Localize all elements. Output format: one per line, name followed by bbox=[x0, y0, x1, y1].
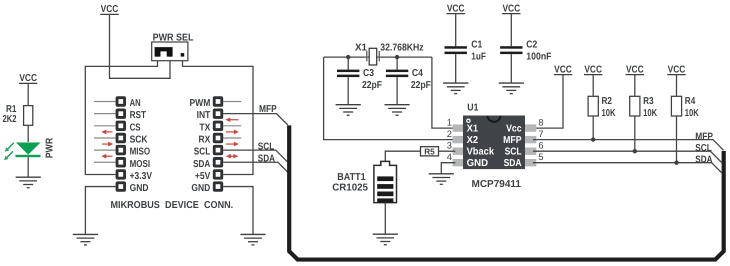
red direction arrows (left header) bbox=[101, 130, 113, 159]
svg-text:TX: TX bbox=[199, 122, 210, 133]
VCC (R4) bbox=[667, 64, 685, 75]
svg-text:SCL: SCL bbox=[194, 147, 211, 158]
svg-text:2: 2 bbox=[447, 129, 452, 139]
wire jumper pin1 to +3.3V rail bbox=[85, 61, 157, 175]
wire GND pin to ground (left) bbox=[85, 187, 115, 235]
svg-text:32.768KHz: 32.768KHz bbox=[380, 42, 423, 53]
svg-text:MIKROBUS DEVICE CONN.: MIKROBUS DEVICE CONN. bbox=[111, 200, 234, 211]
svg-text:GND: GND bbox=[467, 158, 489, 169]
right header labels bbox=[190, 98, 211, 194]
svg-text:VCC: VCC bbox=[502, 3, 520, 14]
svg-text:7: 7 bbox=[538, 129, 543, 139]
svg-text:CR1025: CR1025 bbox=[332, 182, 368, 193]
svg-text:VCC: VCC bbox=[668, 64, 686, 75]
wire pin3 Vback to R5 bbox=[439, 150, 456, 152]
svg-text:MCP79411: MCP79411 bbox=[472, 179, 522, 190]
svg-text:+5V: +5V bbox=[195, 171, 211, 182]
junction R2-MFP bbox=[591, 137, 595, 141]
node junction (crystal left) bbox=[346, 55, 350, 59]
left header labels bbox=[130, 98, 153, 194]
ground (C4) bbox=[385, 105, 410, 116]
wire SCL to bus bbox=[223, 150, 287, 162]
svg-text:RST: RST bbox=[130, 110, 147, 121]
svg-text:SDA: SDA bbox=[258, 154, 275, 165]
svg-text:X1: X1 bbox=[467, 123, 479, 134]
VCC (C2) bbox=[502, 3, 520, 14]
ground (LED) bbox=[16, 177, 41, 188]
wire R5 to battery bbox=[385, 151, 420, 161]
svg-text:MOSI: MOSI bbox=[130, 159, 151, 170]
resistor R5 bbox=[421, 146, 439, 156]
crystal X1 bbox=[355, 42, 424, 65]
thick bus wire bbox=[289, 125, 724, 259]
svg-text:X2: X2 bbox=[467, 135, 479, 146]
svg-text:VCC: VCC bbox=[554, 64, 572, 75]
wire INT to MFP node bbox=[223, 114, 288, 125]
wire VCC down to jumper middle pin bbox=[110, 14, 171, 78]
wire pin4 GND to ground bbox=[441, 163, 455, 174]
VCC (R2) bbox=[584, 64, 602, 75]
svg-text:10K: 10K bbox=[685, 108, 700, 119]
svg-text:RX: RX bbox=[199, 135, 211, 146]
svg-text:C2: C2 bbox=[526, 39, 537, 50]
svg-text:Vcc: Vcc bbox=[506, 123, 522, 134]
wire pin7 MFP to bus bbox=[533, 140, 724, 151]
VCC (top left, jumper supply) bbox=[100, 4, 118, 15]
resistor R2 bbox=[588, 75, 616, 140]
battery BATT1 bbox=[332, 161, 396, 202]
wire right rail to X1 (pin1) bbox=[432, 57, 455, 128]
svg-text:VCC: VCC bbox=[584, 64, 602, 75]
jumper PWR_SEL bbox=[152, 33, 194, 61]
svg-text:1: 1 bbox=[447, 118, 452, 128]
resistor R4 bbox=[671, 75, 699, 163]
svg-text:X1: X1 bbox=[355, 42, 367, 53]
capacitor C3 bbox=[337, 57, 382, 104]
ground (C2) bbox=[499, 83, 524, 94]
svg-text:MFP: MFP bbox=[259, 104, 277, 115]
ground (C1) bbox=[443, 83, 468, 94]
VCC (R3) bbox=[626, 64, 644, 75]
ground (right header) bbox=[240, 234, 265, 245]
svg-text:CS: CS bbox=[130, 122, 141, 133]
wire battery to ground bbox=[384, 203, 386, 234]
left header pins bbox=[116, 96, 126, 191]
svg-text:Vback: Vback bbox=[467, 146, 495, 157]
wire LED to ground bbox=[27, 157, 29, 177]
wire GND pin to ground (right) bbox=[223, 187, 253, 235]
resistor R1 bbox=[3, 104, 33, 126]
junction R4-SDA bbox=[674, 161, 678, 165]
svg-text:R2: R2 bbox=[602, 96, 613, 107]
svg-text:22pF: 22pF bbox=[411, 80, 431, 91]
svg-text:6: 6 bbox=[538, 141, 543, 151]
svg-text:PWR: PWR bbox=[44, 137, 55, 158]
junction R3-SCL bbox=[633, 149, 637, 153]
wire left rail to X2 (pin2) bbox=[324, 57, 456, 140]
wire SDA to bus bbox=[223, 162, 287, 172]
ground (battery) bbox=[373, 234, 398, 245]
wire VCC to R1 bbox=[27, 83, 29, 105]
RTC chip U1 MCP79411 bbox=[453, 102, 537, 189]
svg-text:MFP: MFP bbox=[503, 135, 522, 146]
svg-text:VCC: VCC bbox=[101, 4, 119, 15]
wire jumper pin3 to +5V rail bbox=[183, 61, 254, 175]
svg-text:C4: C4 bbox=[412, 68, 423, 79]
svg-text:1uF: 1uF bbox=[471, 52, 486, 63]
svg-text:PWM: PWM bbox=[190, 98, 211, 109]
svg-text:3: 3 bbox=[447, 141, 452, 151]
svg-text:C3: C3 bbox=[363, 68, 374, 79]
wire pin5 SDA to bus bbox=[533, 163, 722, 173]
svg-text:R3: R3 bbox=[643, 96, 654, 107]
wire VCC to pin 8 bbox=[533, 75, 563, 129]
svg-text:SDA: SDA bbox=[193, 159, 210, 170]
svg-text:10K: 10K bbox=[602, 108, 617, 119]
pin numbers U1 bbox=[447, 118, 544, 163]
mikrobus device connector left header bbox=[94, 102, 116, 163]
ground (left header) bbox=[73, 234, 98, 245]
svg-text:100nF: 100nF bbox=[526, 52, 551, 63]
svg-text:22pF: 22pF bbox=[362, 80, 382, 91]
svg-text:8: 8 bbox=[538, 118, 543, 128]
ground (C3) bbox=[336, 105, 361, 116]
svg-text:SCK: SCK bbox=[130, 135, 149, 146]
capacitor C2 bbox=[500, 14, 551, 83]
svg-text:R5: R5 bbox=[424, 146, 435, 156]
svg-text:2K2: 2K2 bbox=[3, 114, 17, 125]
VCC (chip supply) bbox=[554, 64, 572, 75]
wire R1 to LED bbox=[27, 125, 29, 142]
svg-text:+3.3V: +3.3V bbox=[130, 171, 153, 182]
svg-text:R4: R4 bbox=[685, 96, 696, 107]
ground (U1 pin 4) bbox=[429, 174, 454, 185]
svg-text:MISO: MISO bbox=[130, 147, 151, 158]
svg-text:U1: U1 bbox=[467, 102, 479, 113]
svg-text:VCC: VCC bbox=[626, 64, 644, 75]
svg-text:MFP: MFP bbox=[695, 131, 713, 142]
svg-text:5: 5 bbox=[538, 152, 543, 162]
capacitor C1 bbox=[445, 14, 486, 83]
svg-text:VCC: VCC bbox=[447, 3, 465, 14]
right header pins bbox=[213, 96, 223, 191]
resistor R3 bbox=[630, 75, 658, 152]
VCC (C1) bbox=[447, 3, 465, 14]
LED PWR (green) bbox=[4, 137, 55, 160]
svg-text:AN: AN bbox=[130, 98, 141, 109]
svg-text:GND: GND bbox=[130, 183, 149, 194]
svg-text:SCL: SCL bbox=[505, 146, 522, 157]
red direction arrows (right header) bbox=[225, 117, 239, 158]
mikrobus device connector right header bbox=[223, 102, 241, 139]
svg-text:VCC: VCC bbox=[19, 73, 37, 84]
svg-text:GND: GND bbox=[191, 183, 210, 194]
node junction (crystal right) bbox=[395, 55, 399, 59]
svg-text:SCL: SCL bbox=[695, 143, 712, 154]
power VCC (LED branch) bbox=[19, 73, 37, 84]
svg-text:SDA: SDA bbox=[504, 158, 522, 169]
wire pin6 SCL to bus bbox=[533, 151, 722, 162]
capacitor C4 bbox=[386, 57, 431, 104]
crystal circuit wire (top) bbox=[324, 56, 432, 58]
svg-text:4: 4 bbox=[447, 152, 452, 162]
svg-text:SCL: SCL bbox=[258, 142, 275, 153]
svg-text:INT: INT bbox=[197, 110, 211, 121]
svg-text:10K: 10K bbox=[643, 108, 658, 119]
svg-text:C1: C1 bbox=[471, 39, 482, 50]
svg-text:SDA: SDA bbox=[695, 155, 712, 166]
